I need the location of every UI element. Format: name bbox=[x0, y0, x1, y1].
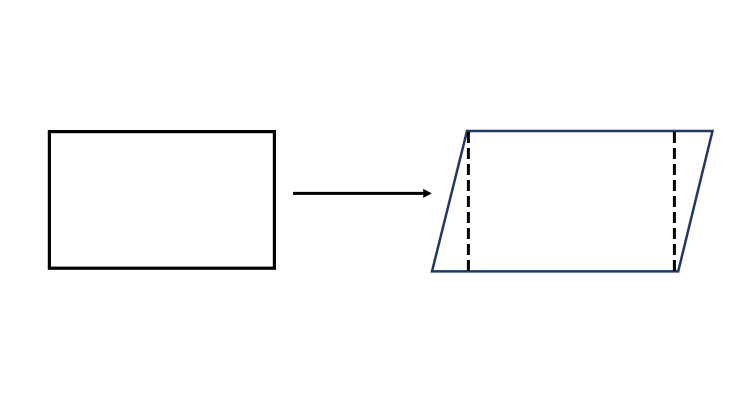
parallelogram (sheared shape) bbox=[432, 131, 713, 271]
dashed height line left bbox=[467, 132, 470, 271]
dashed height line right bbox=[673, 132, 676, 271]
rectangle (original shape) bbox=[49, 132, 274, 269]
arrow (transformation) bbox=[293, 189, 432, 198]
